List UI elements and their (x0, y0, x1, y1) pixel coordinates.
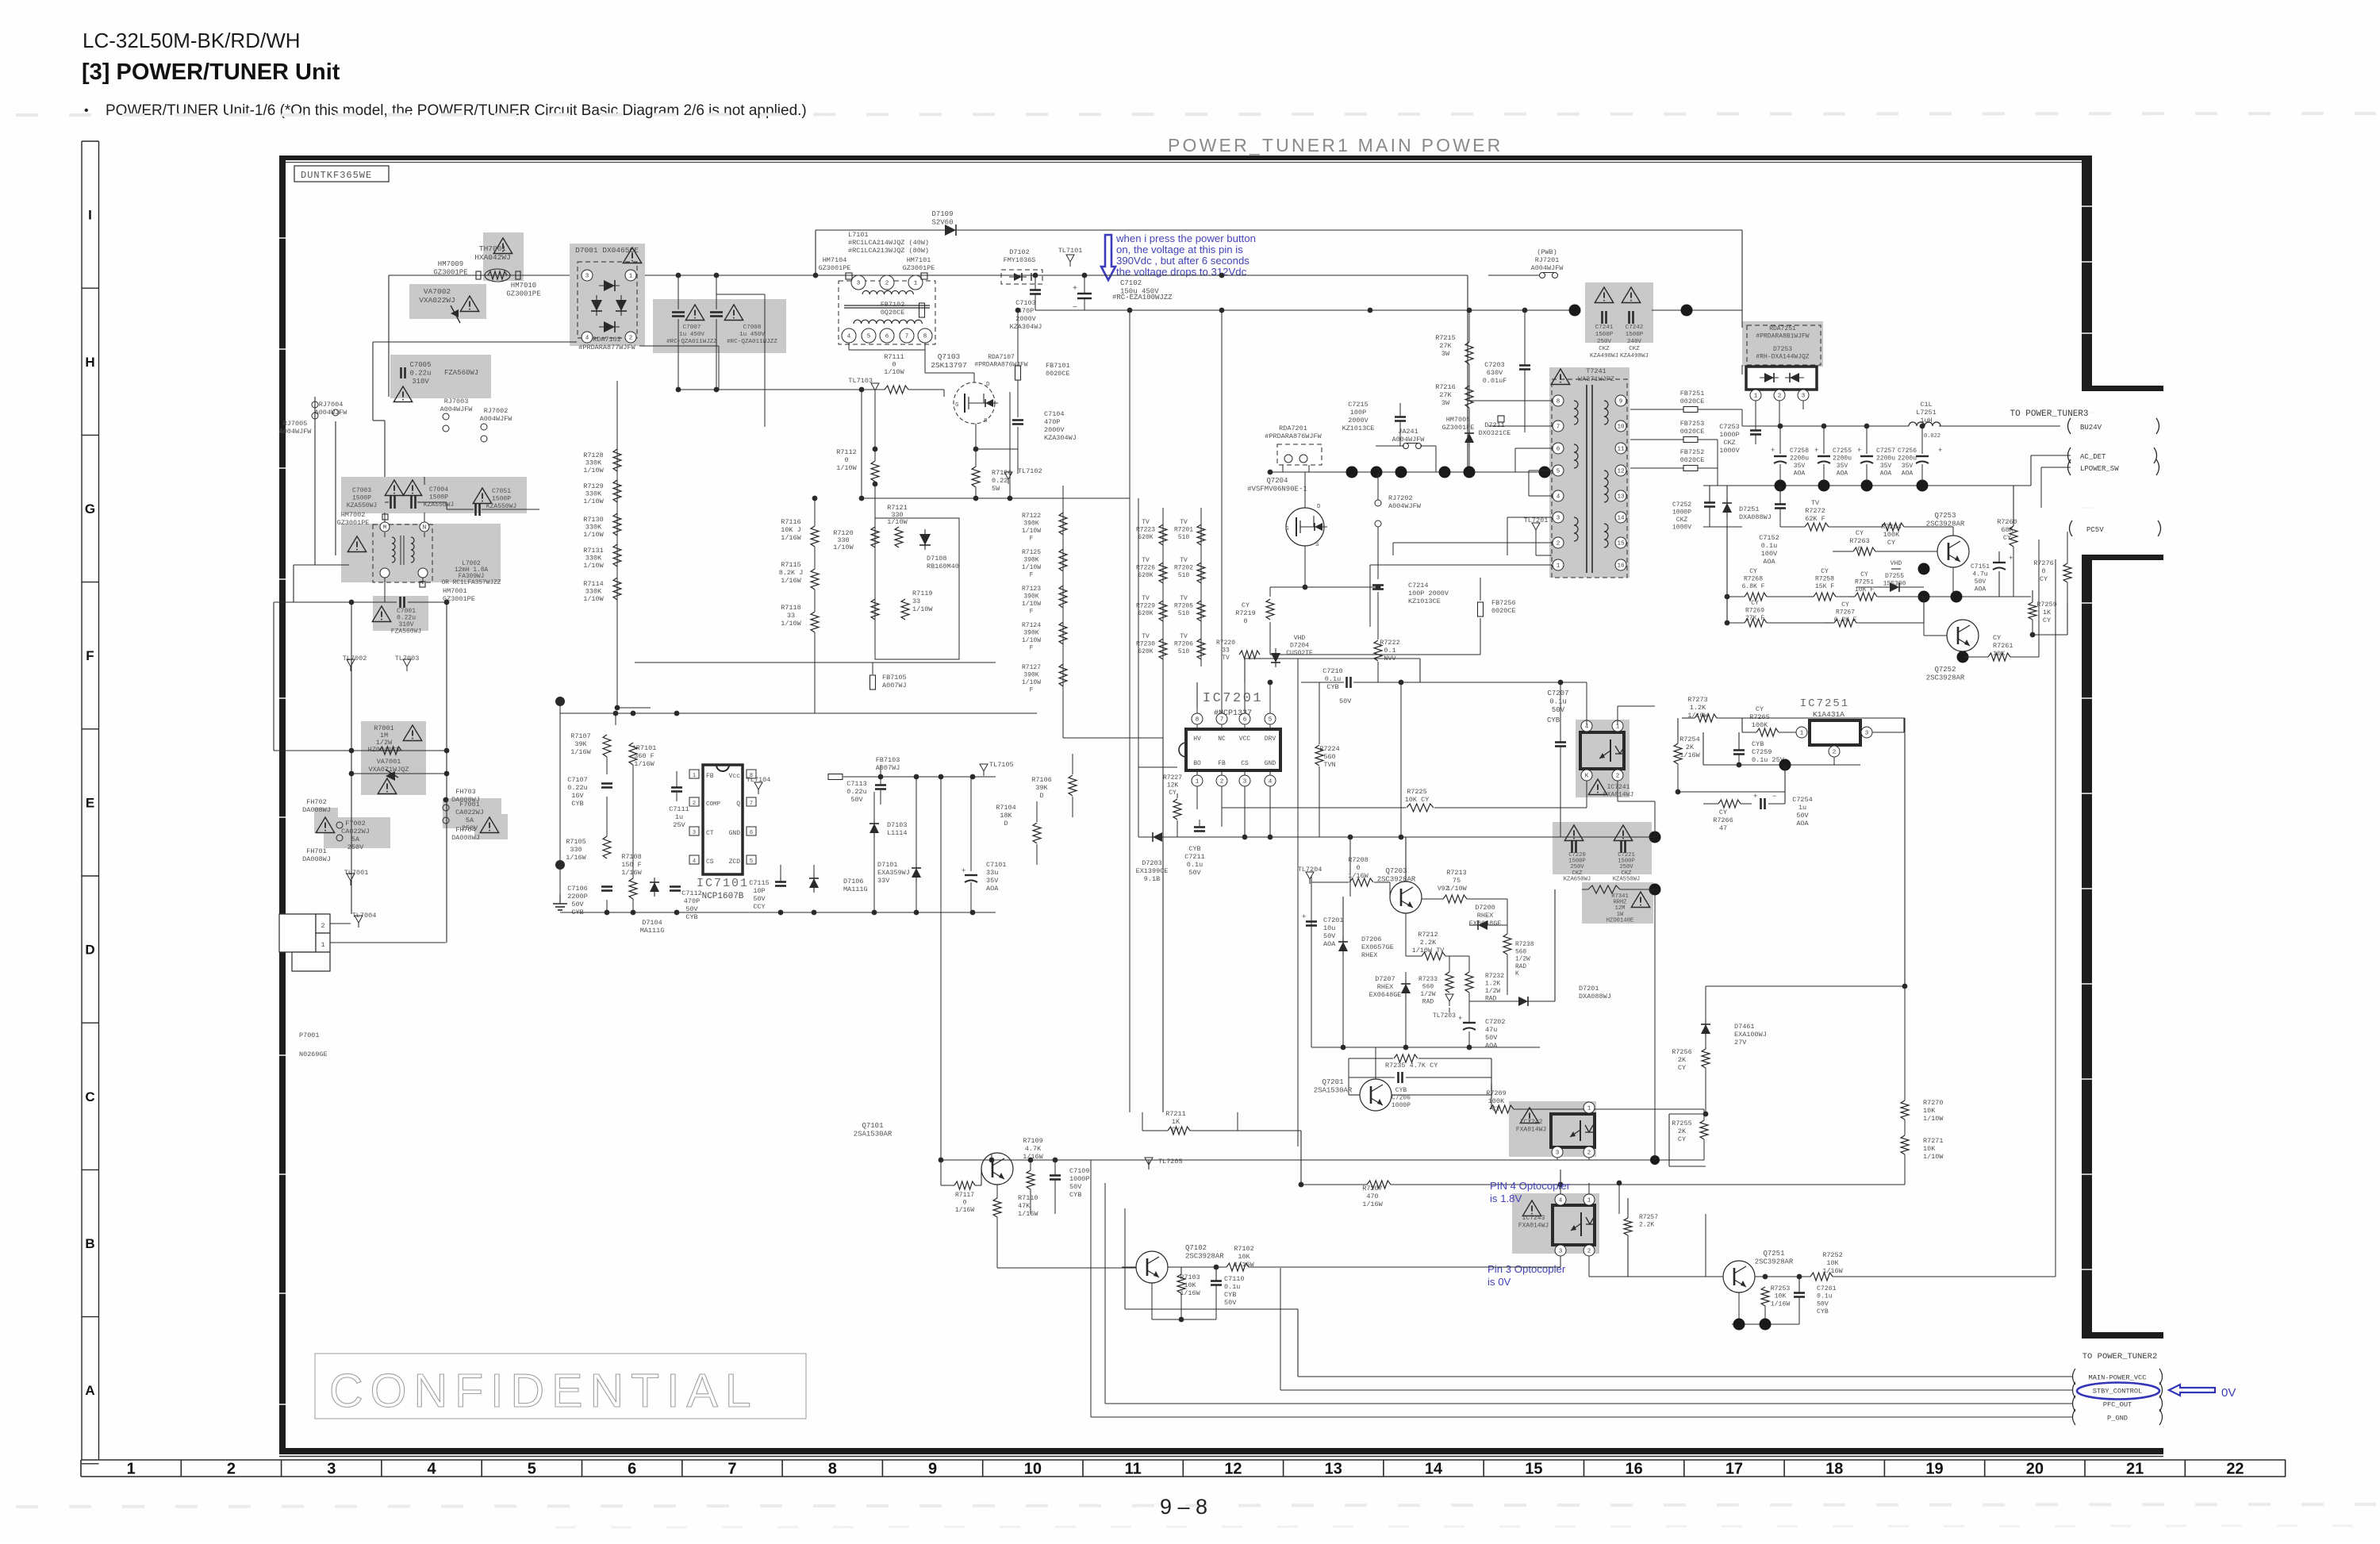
svg-text:1/16W: 1/16W (1679, 751, 1700, 759)
svg-text:TV: TV (1180, 557, 1188, 564)
svg-text:FB7252: FB7252 (1680, 448, 1705, 456)
svg-text:R7259: R7259 (2036, 601, 2057, 609)
svg-text:HM7005: HM7005 (1446, 416, 1471, 424)
wire right column (2033, 634, 2067, 636)
svg-text:EX0648GE: EX0648GE (1369, 991, 1402, 999)
shaded area C7007 C7008 shading (653, 299, 786, 353)
svg-text:F: F (1030, 645, 1034, 652)
svg-text:CYB: CYB (1547, 716, 1560, 724)
svg-text:1/10W: 1/10W (1446, 885, 1467, 893)
svg-text:Q7251: Q7251 (1763, 1250, 1784, 1258)
svg-text:TL7002: TL7002 (343, 655, 367, 663)
optocoupler IC7241 (1580, 732, 1624, 769)
svg-text:L7002: L7002 (462, 561, 481, 567)
svg-text:R7118: R7118 (781, 604, 801, 612)
svg-text:3: 3 (1556, 1150, 1560, 1157)
svg-text:FB: FB (706, 773, 714, 780)
svg-text:2: 2 (629, 336, 633, 342)
svg-text:16V: 16V (571, 792, 584, 800)
svg-text:BO: BO (1193, 760, 1201, 767)
svg-text:F7002: F7002 (345, 820, 366, 828)
svg-text:100K: 100K (1488, 1097, 1505, 1105)
svg-text:1u: 1u (675, 813, 683, 821)
svg-text:R7110: R7110 (1018, 1194, 1038, 1202)
svg-text:KZ1013CE: KZ1013CE (1342, 424, 1375, 432)
svg-text:VXA022WJ: VXA022WJ (419, 296, 455, 305)
svg-text:C7256: C7256 (1898, 447, 1917, 455)
svg-text:C7107: C7107 (567, 776, 588, 784)
svg-text:9: 9 (928, 1461, 937, 1478)
svg-text:+: + (1938, 447, 1942, 455)
svg-text:2SC3928AR: 2SC3928AR (1926, 674, 1965, 682)
svg-text:1500P: 1500P (352, 495, 371, 502)
svg-text:35V: 35V (1794, 463, 1806, 470)
svg-text:50V: 50V (1485, 1034, 1498, 1042)
svg-text:8.2K J: 8.2K J (779, 569, 804, 577)
svg-text:2000V: 2000V (1348, 417, 1368, 424)
svg-text:C7112: C7112 (681, 889, 702, 897)
svg-text:2: 2 (693, 801, 696, 807)
svg-text:19: 19 (1925, 1461, 1943, 1478)
svg-text:1/10W: 1/10W (912, 605, 933, 613)
svg-text:1: 1 (127, 1461, 136, 1478)
svg-text:1/10W: 1/10W (1022, 637, 1041, 644)
svg-text:TV: TV (1180, 519, 1188, 526)
svg-text:330K: 330K (585, 555, 602, 563)
svg-text:KZA498WJ: KZA498WJ (1590, 353, 1618, 359)
svg-text:#RH-DXA144WJQZ: #RH-DXA144WJQZ (1756, 354, 1809, 361)
svg-text:FZA560WJ: FZA560WJ (444, 369, 478, 377)
svg-text:on, the voltage at this pin is: on, the voltage at this pin is (1116, 244, 1243, 255)
wire long top-to-bottom x1424 (1129, 310, 1130, 1112)
svg-text:A004WJFW: A004WJFW (1388, 502, 1422, 510)
svg-text:MAIN-POWER_VCC: MAIN-POWER_VCC (2089, 1374, 2147, 1382)
optocoupler IC7242 (1551, 1114, 1595, 1147)
svg-text:1/16W: 1/16W (1362, 1200, 1383, 1208)
svg-text:DRV: DRV (1265, 736, 1276, 743)
capacitor C7258 (1774, 455, 1787, 457)
svg-text:620K: 620K (1138, 648, 1153, 655)
svg-text:R7108: R7108 (621, 853, 642, 861)
svg-text:2000V: 2000V (1044, 426, 1065, 434)
svg-text:5: 5 (528, 1461, 536, 1478)
svg-text:the voltage drops to 312Vdc: the voltage drops to 312Vdc (1116, 266, 1247, 278)
svg-text:11: 11 (1617, 447, 1625, 453)
svg-text:1/16W: 1/16W (1018, 1210, 1038, 1218)
svg-text:#VSFMV06N90E-1: #VSFMV06N90E-1 (1247, 486, 1307, 494)
svg-text:510: 510 (1178, 648, 1190, 655)
svg-text:T7241: T7241 (1586, 367, 1606, 375)
svg-text:35V: 35V (1902, 463, 1914, 470)
svg-text:R7107: R7107 (570, 732, 591, 740)
svg-text:#RC1LCA213WJQZ (80W): #RC1LCA213WJQZ (80W) (848, 247, 929, 255)
svg-text:MA111G: MA111G (843, 885, 868, 893)
svg-text:13: 13 (1325, 1461, 1342, 1478)
svg-text:2K: 2K (1678, 1127, 1687, 1135)
capacitor C7001 (399, 597, 401, 608)
svg-text:1: 1 (1196, 779, 1200, 785)
svg-text:FB7101: FB7101 (1046, 362, 1070, 370)
svg-text:1: 1 (1800, 731, 1804, 737)
svg-text:FB7102: FB7102 (881, 301, 905, 309)
svg-text:#RC1LCA214WJQZ (40W): #RC1LCA214WJQZ (40W) (848, 239, 929, 247)
svg-text:R7229: R7229 (1136, 603, 1155, 610)
svg-text:AOA: AOA (1796, 820, 1809, 828)
svg-text:+: + (1073, 285, 1077, 294)
svg-text:CUS02TE: CUS02TE (1286, 650, 1313, 657)
svg-text:IC7251: IC7251 (1800, 697, 1849, 710)
svg-text:0.1u: 0.1u (1817, 1293, 1833, 1300)
svg-text:AC_DET: AC_DET (2080, 453, 2106, 461)
svg-text:D7101: D7101 (877, 861, 898, 869)
capacitor C7112 (670, 885, 681, 888)
svg-text:5A: 5A (351, 835, 360, 843)
svg-text:CY: CY (1993, 634, 2001, 642)
svg-text:R7125: R7125 (1022, 549, 1041, 556)
svg-text:2200u: 2200u (1833, 455, 1852, 463)
blue arrow 0V (2169, 1385, 2215, 1396)
svg-text:DA008WJ: DA008WJ (451, 834, 480, 842)
svg-text:16: 16 (1626, 1461, 1643, 1478)
wire x1569 DRV (1244, 659, 1246, 682)
capacitors C7220 C7221 on gray (1564, 825, 1583, 841)
svg-text:R7209: R7209 (1486, 1089, 1507, 1097)
svg-text:27K: 27K (1439, 342, 1452, 350)
svg-text:33: 33 (787, 612, 795, 620)
svg-text:3: 3 (585, 274, 589, 280)
svg-text:TV: TV (1180, 595, 1188, 602)
svg-text:4: 4 (693, 858, 696, 865)
svg-text:CCY: CCY (753, 903, 765, 911)
svg-text:1/2W: 1/2W (1485, 988, 1500, 995)
svg-text:7: 7 (750, 801, 753, 807)
svg-text:AOA: AOA (1794, 470, 1806, 478)
svg-text:3: 3 (327, 1461, 336, 1478)
svg-text:10K: 10K (1775, 1293, 1787, 1300)
svg-text:50V: 50V (1552, 706, 1565, 714)
svg-text:1/16W: 1/16W (1822, 1267, 1843, 1275)
svg-text:RJ7005: RJ7005 (283, 420, 308, 428)
svg-text:RDA7107: RDA7107 (988, 354, 1015, 361)
svg-text:C7203: C7203 (1484, 361, 1505, 369)
svg-text:62K F: 62K F (1805, 515, 1825, 523)
shaded area RDA7251 shading (1742, 321, 1823, 367)
svg-text:VXA071WJQZ: VXA071WJQZ (368, 766, 409, 774)
svg-text:CY: CY (1821, 568, 1829, 575)
svg-text:390K: 390K (1023, 520, 1038, 528)
svg-text:IC7201: IC7201 (1203, 691, 1263, 706)
svg-text:D7203: D7203 (1142, 859, 1162, 867)
wire feedback vertical x1186 (940, 777, 942, 1160)
resistor ladder box R7121 R7119 D7108 (875, 518, 959, 659)
capacitors C7003 C7004 C7051 (390, 496, 392, 509)
svg-text:R7224: R7224 (1319, 745, 1340, 753)
svg-text:R7127: R7127 (1022, 664, 1041, 671)
shaded area R7341 shading (1582, 882, 1653, 924)
svg-text:4: 4 (1269, 779, 1273, 785)
svg-text:2: 2 (1557, 541, 1560, 547)
svg-text:RAD: RAD (1515, 964, 1526, 970)
svg-text:OR RC1LFA357WJZZ: OR RC1LFA357WJZZ (442, 580, 501, 586)
diode D7103 (869, 824, 879, 833)
svg-text:R7105: R7105 (566, 838, 586, 846)
svg-text:CY: CY (1887, 539, 1895, 547)
svg-text:GND: GND (1265, 760, 1276, 767)
svg-text:1: 1 (1754, 394, 1758, 400)
svg-text:390K: 390K (1023, 557, 1038, 564)
svg-text:35V: 35V (986, 877, 999, 885)
svg-text:TL7103: TL7103 (848, 377, 873, 385)
svg-text:FB7251: FB7251 (1680, 390, 1705, 398)
wire main 390V rail (843, 275, 1468, 276)
svg-text:1/10W: 1/10W (884, 368, 904, 376)
svg-text:9.1B: 9.1B (1144, 875, 1160, 883)
svg-text:33: 33 (912, 597, 920, 605)
svg-text:HXA042WJ: HXA042WJ (474, 253, 511, 262)
svg-text:100K: 100K (1883, 531, 1900, 539)
svg-text:1K: 1K (1172, 1118, 1180, 1126)
svg-text:2SA1530AR: 2SA1530AR (1314, 1087, 1353, 1095)
svg-text:2: 2 (1833, 750, 1837, 756)
svg-text:R7266: R7266 (1713, 816, 1733, 824)
svg-text:#PRDARA877WJFW: #PRDARA877WJFW (578, 344, 635, 351)
svg-text:3W: 3W (1441, 350, 1450, 358)
svg-text:1/10W: 1/10W (833, 543, 854, 551)
diode D7104 (650, 882, 659, 892)
svg-text:R7130: R7130 (583, 516, 604, 524)
svg-text:PC5V: PC5V (2086, 526, 2104, 534)
svg-text:2200P: 2200P (567, 893, 588, 901)
svg-text:FXA014WJ: FXA014WJ (1518, 1223, 1549, 1230)
svg-text:LPOWER_SW: LPOWER_SW (2080, 465, 2119, 473)
svg-text:D7109: D7109 (931, 210, 953, 218)
svg-text:1/16W: 1/16W (781, 577, 801, 585)
svg-text:AOA: AOA (986, 885, 999, 893)
svg-text:1000P: 1000P (1392, 1102, 1411, 1109)
svg-text:C7257: C7257 (1876, 447, 1895, 455)
svg-text:8: 8 (923, 334, 927, 340)
svg-text:C7101: C7101 (986, 861, 1007, 869)
svg-text:+: + (1771, 447, 1775, 455)
svg-text:1/16W: 1/16W (1180, 1289, 1200, 1297)
svg-text:2000V: 2000V (1015, 315, 1036, 323)
svg-text:R7263: R7263 (1849, 537, 1870, 545)
wire connector risers (1280, 1268, 1281, 1390)
wire pfc return rail (1035, 309, 1572, 311)
svg-text:EX0657GE: EX0657GE (1361, 943, 1394, 951)
svg-text:AOA: AOA (1880, 470, 1892, 478)
svg-text:COMP: COMP (706, 801, 721, 808)
svg-text:0: 0 (844, 456, 848, 464)
transformer T7241 windings (1574, 401, 1578, 424)
svg-text:10K: 10K (1826, 1259, 1839, 1267)
svg-text:8: 8 (1557, 399, 1560, 405)
svg-text:C7211: C7211 (1184, 853, 1205, 861)
scan artifact dotted row top (16, 113, 2376, 115)
svg-text:TV: TV (1142, 557, 1150, 564)
svg-text:CYB: CYB (1188, 845, 1200, 853)
svg-text:1000V: 1000V (1672, 524, 1691, 532)
wire R7255 to opto rail (1703, 1139, 1705, 1160)
connector BU24V (2068, 418, 2071, 434)
svg-text:CKZ: CKZ (1599, 346, 1610, 352)
svg-text:D7204: D7204 (1290, 643, 1309, 650)
svg-text:Q7201: Q7201 (1322, 1078, 1343, 1086)
svg-text:100K: 100K (1752, 721, 1768, 729)
svg-text:0020CE: 0020CE (1680, 456, 1705, 464)
svg-text:15K F: 15K F (1815, 583, 1834, 590)
svg-text:A004WJFW: A004WJFW (1531, 264, 1564, 272)
svg-text:50V: 50V (1323, 932, 1336, 940)
svg-text:R7265: R7265 (1749, 713, 1770, 721)
wire standby bottom rail (1311, 1047, 1540, 1048)
svg-text:POWER_TUNER1 MAIN POWER: POWER_TUNER1 MAIN POWER (1168, 135, 1503, 156)
shaded area C7220 C7221 shading (1553, 822, 1652, 874)
svg-text:C7003: C7003 (352, 487, 371, 494)
svg-text:0020CE: 0020CE (1680, 398, 1705, 405)
svg-text:VHD: VHD (1891, 560, 1902, 567)
common mode choke L7002 (373, 524, 432, 582)
svg-text:C7005: C7005 (409, 361, 431, 369)
svg-text:10K: 10K (1184, 1281, 1196, 1289)
svg-text:TVN: TVN (1323, 761, 1335, 769)
svg-text:C7255: C7255 (1833, 447, 1852, 455)
connector pin PFC_OUT (1105, 1403, 2072, 1404)
svg-text:2K: 2K (1678, 1056, 1687, 1064)
svg-text:0.1: 0.1 (1384, 647, 1395, 655)
svg-text:1/10W: 1/10W (887, 518, 908, 526)
svg-text:330K: 330K (585, 459, 602, 467)
wire IC7101 bottom rail (560, 912, 996, 913)
svg-text:0V: 0V (2221, 1386, 2236, 1400)
svg-text:1000P: 1000P (1719, 431, 1740, 439)
svg-text:GZ3001PE: GZ3001PE (433, 269, 467, 277)
shaded area C7005 shading (390, 355, 491, 398)
junction top (555, 697, 565, 706)
svg-text:2: 2 (1220, 779, 1224, 785)
svg-text:0: 0 (1243, 617, 1247, 625)
svg-text:BU24V: BU24V (2080, 424, 2102, 432)
svg-text:1u 450V: 1u 450V (679, 332, 704, 338)
svg-text:C7106: C7106 (567, 885, 588, 893)
svg-text:D7461: D7461 (1734, 1023, 1755, 1031)
svg-text:1: 1 (1587, 1106, 1591, 1112)
svg-text:R7253: R7253 (1771, 1285, 1791, 1292)
svg-text:C7215: C7215 (1348, 401, 1368, 409)
svg-text:1/10W: 1/10W (583, 562, 604, 570)
svg-text:AOA: AOA (1485, 1042, 1498, 1050)
svg-text:KZA304WJ: KZA304WJ (1044, 434, 1077, 442)
svg-text:D: D (1039, 792, 1043, 800)
svg-text:FXA014WJ: FXA014WJ (1603, 792, 1633, 799)
wire feedback long vertical x2591 (2055, 559, 2056, 1277)
svg-text:R7131: R7131 (583, 547, 604, 555)
svg-text:Vcc: Vcc (729, 773, 741, 780)
capacitor C7255 (1818, 455, 1830, 457)
svg-text:6: 6 (885, 334, 889, 340)
svg-text:6: 6 (750, 830, 753, 836)
svg-text:C7253: C7253 (1719, 423, 1740, 431)
wire IC7251 bottom (1703, 764, 1860, 766)
svg-text:10: 10 (1617, 424, 1625, 431)
svg-text:C7109: C7109 (1069, 1167, 1090, 1175)
svg-text:9 – 8: 9 – 8 (1160, 1495, 1207, 1519)
svg-text:8: 8 (828, 1461, 837, 1478)
svg-text:0.1u: 0.1u (1224, 1283, 1240, 1291)
svg-text:R7128: R7128 (583, 451, 604, 459)
svg-text:0: 0 (1356, 864, 1360, 872)
junction rails (1033, 273, 1038, 278)
capacitor C7257 (1860, 455, 1873, 457)
svg-text:TV: TV (1142, 595, 1150, 602)
svg-text:C7007: C7007 (683, 325, 701, 331)
svg-text:2: 2 (1616, 774, 1620, 780)
svg-text:0.1u: 0.1u (1549, 698, 1567, 706)
svg-text:2: 2 (1587, 1150, 1591, 1157)
wire HV feed x1509 (1196, 682, 1198, 707)
svg-text:R7129: R7129 (583, 482, 604, 490)
svg-text:R7238: R7238 (1515, 942, 1534, 948)
svg-text:−: − (1772, 793, 1776, 801)
svg-text:F: F (86, 648, 94, 663)
svg-text:KZA550WJ: KZA550WJ (1613, 876, 1641, 882)
svg-text:310V: 310V (412, 378, 429, 386)
wire grid connect (1726, 527, 1728, 623)
svg-text:POWER/TUNER Unit-1/6 (*On this: POWER/TUNER Unit-1/6 (*On this model, th… (106, 102, 807, 119)
svg-text:C7004: C7004 (429, 486, 448, 494)
svg-text:2: 2 (1587, 1249, 1591, 1255)
svg-text:+: + (1814, 447, 1818, 455)
svg-text:3: 3 (693, 830, 696, 836)
svg-text:3: 3 (1865, 731, 1869, 737)
svg-text:50V: 50V (1339, 697, 1352, 705)
svg-text:14: 14 (1425, 1461, 1443, 1478)
svg-text:5: 5 (867, 334, 871, 340)
svg-text:HM7010: HM7010 (511, 282, 536, 290)
svg-text:Pin 3 Optocopler: Pin 3 Optocopler (1487, 1263, 1566, 1275)
shaded area T7241 transformer shading (1549, 367, 1630, 578)
left ruler column (81, 141, 83, 1460)
svg-text:6.8K F: 6.8K F (1742, 583, 1765, 590)
svg-text:4: 4 (427, 1461, 436, 1478)
svg-text:PIN 4 Optocopler: PIN 4 Optocopler (1490, 1180, 1571, 1192)
svg-text:CY: CY (1169, 789, 1177, 797)
shaded area TH7001 shading (483, 232, 524, 281)
shaded area D7001 bridge shading (570, 244, 645, 346)
wire rail to bottom (1138, 767, 1139, 837)
svg-text:AOA: AOA (1323, 940, 1336, 948)
wire AC neutral rail (373, 341, 577, 343)
svg-text:CONFIDENTIAL: CONFIDENTIAL (329, 1365, 758, 1417)
svg-text:1/16W: 1/16W (781, 534, 801, 542)
svg-text:RHEX: RHEX (1477, 912, 1493, 920)
svg-text:C7252: C7252 (1672, 501, 1691, 509)
svg-text:L7101: L7101 (848, 231, 869, 239)
svg-text:50V: 50V (850, 796, 863, 804)
svg-text:390K: 390K (1023, 672, 1038, 679)
svg-text:GZ3001PE: GZ3001PE (819, 264, 851, 272)
svg-text:0.22u: 0.22u (409, 370, 431, 378)
svg-text:FMY1036S: FMY1036S (1004, 256, 1036, 264)
svg-text:C7103: C7103 (1015, 299, 1036, 307)
svg-text:47u: 47u (1485, 1026, 1497, 1034)
svg-text:#RC-QZA011WJZZ: #RC-QZA011WJZZ (727, 339, 777, 345)
svg-text:F: F (1030, 572, 1034, 579)
svg-text:DUNTKF365WE: DUNTKF365WE (301, 170, 372, 181)
frame bottom edge (279, 1448, 2163, 1454)
wire IC7201 pins (1196, 707, 1198, 713)
wire vertical from C7005 node (372, 342, 374, 421)
